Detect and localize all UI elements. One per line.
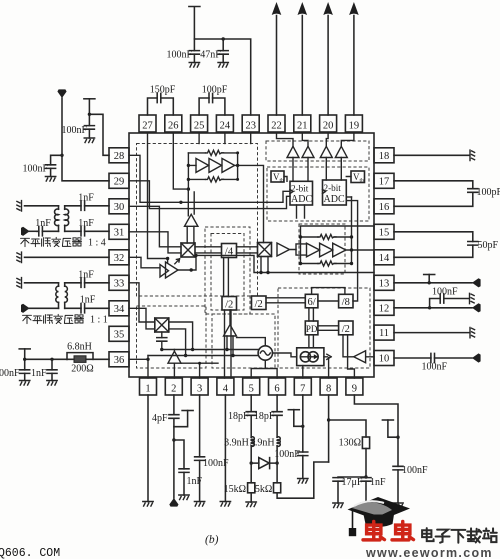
svg-text:100nF: 100nF [166,50,192,61]
ADC2 2-bit ADC [323,180,347,205]
antenna input pin 22 [272,2,282,115]
PD to /2D lines [318,326,339,331]
bracket above 6/ and /8 [312,288,345,295]
capacitor 100pF between pins 25-24 [199,85,228,116]
pin 20 [320,115,337,132]
supply tick on pin 9 net [382,420,398,437]
oscillator top wire to VCO [237,338,266,346]
svg-text:100nF: 100nF [274,449,300,460]
svg-text:100nF: 100nF [61,125,87,136]
svg-text:21: 21 [297,121,308,132]
pin 21 [294,115,311,132]
svg-text:100nF: 100nF [0,368,20,379]
resistor 200Ω [67,356,109,375]
svg-text:34: 34 [114,304,125,315]
capacitor 100nF (supply decoupling) [166,39,199,67]
unbalance transformer T2 1:1 [56,283,68,309]
svg-text:5: 5 [249,384,254,395]
pin 16 [374,199,394,214]
svg-text:100nF: 100nF [422,361,448,372]
ADC1 2-bit ADC [290,181,313,205]
svg-text:29: 29 [114,176,125,187]
pin 26 [165,115,182,132]
VCO buffer base wires to buses [227,336,233,356]
svg-text:9: 9 [352,384,357,395]
svg-text:th: th [360,178,365,184]
dashed block: ADC section [267,167,369,221]
pin 4 [217,378,234,395]
dashed block: PLL section [278,288,370,368]
crystal amp triangle [168,350,181,364]
mixer M2 bottom stubs [261,257,268,273]
pin 28 [109,148,129,163]
pin 11 to ground [394,327,475,337]
ground to pin 32 [17,252,109,262]
capacitor 100nF (pin 7) [274,395,308,483]
dashed block: divider column inner [211,234,244,311]
svg-text:7: 7 [300,384,305,395]
resistor 5kΩ (pin 6) [255,462,329,498]
capacitor 150pF between pins 27-26 [148,85,176,116]
svg-text:18pF: 18pF [228,411,249,422]
svg-text:th: th [280,178,285,184]
pin 8 net with 130Ω branch [327,395,366,462]
svg-text:150pF: 150pF [150,85,176,96]
svg-text:1nF: 1nF [78,218,94,229]
capacitor 100nF (pin36 net) [0,368,30,385]
svg-text:16: 16 [379,202,390,213]
wire pin1 up [147,356,149,379]
capacitor 100nF (pin 3) [194,395,229,506]
svg-text:ADC: ADC [324,194,345,205]
svg-text:8: 8 [326,384,331,395]
amplifier chain A1 (3 stages) [196,158,235,172]
limiter comparators x4 [287,146,347,157]
pin 34 [109,301,129,316]
svg-text:18: 18 [379,151,390,162]
svg-text:1nF: 1nF [370,477,386,488]
capacitor 1nF (pin 2 net) [172,438,202,499]
divider /8 box [339,294,353,308]
svg-text:/2: /2 [225,299,233,310]
svg-text:100nF: 100nF [402,465,428,476]
/2B to 6/ lines [266,298,305,303]
pin 5 [243,378,260,395]
pin 25 [191,115,208,132]
AGC variable amplifier [160,259,180,278]
capacitor 1nF to pin 30 [65,193,109,211]
svg-text:100pF: 100pF [477,187,500,198]
svg-text:4: 4 [223,384,229,395]
svg-text:10: 10 [379,354,390,365]
pin 12 [374,300,394,315]
capacitor 18pF (pin 5) [228,395,256,437]
pin 14 [374,250,394,265]
crystal amp base line to pin 3 [174,363,218,378]
resistor 130Ω [339,437,370,477]
LO lines mixer M1 to /4 [195,247,222,253]
label transformer T2 [23,314,84,323]
reference mixer M3 [155,318,169,332]
capacitor 1nF (pin36 net) [31,359,57,385]
divider /2 A [222,297,237,311]
wire pin27 down to AGC [148,133,168,263]
pin 8 [320,378,337,395]
capacitor 17μF [333,475,368,507]
pin 17 [374,173,394,188]
dashed block: VCO section [212,314,275,368]
pin 13 to output terminal [394,275,481,288]
pin 12 net: 100nF to ground + terminal [394,287,481,313]
charge pump output open arrow [324,354,331,359]
wire pin23 stub [250,133,252,144]
supply rail to pin 23 [189,7,251,116]
M3 output wires [169,322,193,356]
svg-text:1nF: 1nF [80,295,96,306]
wire pin26 to first IF amp input [173,133,188,189]
svg-text:ADC: ADC [291,194,312,205]
ground (transformer T2 primary) [17,278,59,288]
svg-text:3: 3 [197,384,202,395]
svg-text:23: 23 [245,121,256,132]
Vth reference box 1 [271,171,284,184]
pin 13 [374,275,394,290]
pin 27 [139,115,156,132]
svg-text:2: 2 [171,384,176,395]
svg-text:28: 28 [114,151,125,162]
capacitor 1nF to pin 33 [65,270,109,288]
svg-text:1nF: 1nF [31,368,47,379]
feedback resistor (top) [188,150,237,155]
capacitor 1nF series (terminal to T1) [35,218,58,236]
input terminal (IF in) to pin 29 [57,89,109,180]
wire pin24 stub [224,133,226,144]
oscillator symbol [258,346,272,360]
capacitor 1nF to pin 34 [65,295,109,313]
svg-text:1nF: 1nF [35,218,51,229]
svg-text:/2: /2 [342,324,350,335]
pin 18 [374,148,394,163]
svg-text:27: 27 [142,121,153,132]
oscillator to tank pins 5,6 [251,360,277,378]
IC outline [129,133,374,377]
svg-text:11: 11 [379,328,389,339]
dashed block: limiter comparators [266,141,369,161]
amplifier chain A3 (3 stages) [307,243,346,257]
supply tick pin 28 [84,99,109,156]
divider /2 B [252,296,267,310]
svg-text:50pF: 50pF [478,240,499,251]
pin 31 [109,224,129,239]
svg-text:22: 22 [271,121,282,132]
charge pump [297,348,324,366]
svg-text:/2: /2 [255,299,263,310]
pin 3 [191,378,208,395]
mixer M2 [258,243,272,257]
ground (transformer T1 primary) [17,201,59,211]
antenna input pin 19 [349,2,359,115]
input terminal (RF in) T1 [21,227,37,236]
svg-text:www.eeworm.com: www.eeworm.com [365,546,493,559]
capacitor 47nF (supply decoupling) [200,39,228,67]
pin 11 [374,325,394,340]
capacitor 100nF on pin29 net [22,155,62,181]
wire pin31 to mixer M1 [129,232,181,253]
Vth connection wires [284,177,351,182]
A3 rails and taps to pins 15,14 [301,197,375,264]
svg-text:1: 1 [145,384,150,395]
svg-text:/8: /8 [342,297,350,308]
label transformer T1 [21,237,82,246]
VCO buffer triangle [224,310,237,336]
divider 6/ box [305,294,318,308]
AGC output wire to M2 lower path [178,255,374,272]
dashed block: ref mixer section [137,306,207,368]
svg-text:130Ω: 130Ω [339,437,361,448]
svg-text:47nF: 47nF [200,50,221,61]
svg-text:Q606. COM: Q606. COM [0,547,60,559]
PD to charge pump pair [309,335,314,348]
svg-text:35: 35 [114,329,125,340]
pin 22 [268,115,285,132]
pin 9 [346,378,363,395]
resistor 15kΩ (pin 5) [224,463,257,507]
capacitor 100nF (pin 28 decoupling) [61,125,94,143]
unbalance transformer T1 1:4 [55,206,69,232]
input terminal T2 [21,304,59,313]
pin 23 [242,115,259,132]
pin 7 [294,378,311,395]
pin 15 [374,224,394,239]
svg-text:1 : 1: 1 : 1 [90,315,108,326]
svg-text:6: 6 [274,384,279,395]
capacitor 100nF series (pin 10) to terminal [394,353,481,372]
6/ to /8 line [318,300,339,302]
wire pin33 to M3 [129,283,155,322]
wire pin28 to ADC1 input [129,155,290,202]
red 虫虫 characters [363,522,413,540]
pin 18 to ground [394,150,475,160]
svg-text:12: 12 [379,303,390,314]
feedback resistor (top) A3 [301,234,352,239]
/2A down to pin 4 [225,310,232,378]
pin 36 [109,352,129,367]
pin 35 [109,326,129,341]
pin 32 [109,250,129,265]
svg-text:6.8nH: 6.8nH [67,342,92,353]
pin 4 to ground [220,395,230,506]
svg-text:19: 19 [349,121,360,132]
amp A1 vertical rails [188,153,263,243]
inductor 3.9nH (pin 6) [250,437,280,463]
wire pin25 stub [198,133,200,144]
pin 19 [345,115,362,132]
svg-text:33: 33 [114,278,125,289]
black 电子下载站 characters [422,528,497,543]
svg-text:6/: 6/ [308,297,316,308]
svg-text:20: 20 [323,121,334,132]
svg-text:1 : 4: 1 : 4 [88,238,106,249]
capacitor 1nF to pin 31 [65,218,109,236]
pin 1 [140,378,157,395]
buffer amp B1 (mixer M1 to chain A1), double lines [187,189,194,243]
inductor 6.8nH parallel [67,342,93,360]
antenna input pin 21 [298,2,308,115]
svg-text:200Ω: 200Ω [71,364,93,375]
6/ to PD pair [309,308,314,321]
pin 8 interior stub [328,358,330,379]
dashed block: divider column outer [205,227,250,314]
svg-text:4pF: 4pF [152,413,168,424]
svg-text:26: 26 [168,121,179,132]
/2D to pin 9 [348,335,355,378]
wire pin29 to ADC1 input [129,181,290,209]
LO lines /4 to mixer M2 [237,247,258,253]
pin 2 [165,378,182,395]
wire pin32 to AGC input [129,257,160,268]
svg-text:25: 25 [194,121,205,132]
Vth reference box 2 [351,171,365,184]
svg-text:13: 13 [379,278,390,289]
svg-text:18pF: 18pF [254,411,275,422]
svg-text:30: 30 [114,202,125,213]
svg-text:14: 14 [379,253,390,264]
svg-text:PD: PD [306,324,318,334]
svg-text:15: 15 [379,227,390,238]
amp A2 single stage [277,243,296,256]
pin 24 [216,115,233,132]
svg-text:1nF: 1nF [78,270,94,281]
svg-text:24: 24 [220,121,231,132]
wire pin36 into chip [129,358,148,360]
pin 1 to ground [143,395,153,506]
/4 to /2A vertical pair [224,258,229,297]
capacitor 4pF (pin 2) [152,395,179,498]
capacitor 18pF (pin 6) [254,395,282,437]
svg-text:15kΩ: 15kΩ [224,484,246,495]
capacitor 100nF (pin 9) [393,465,428,508]
capacitor 1nF [361,477,386,508]
svg-text:17: 17 [379,176,390,187]
svg-text:100pF: 100pF [202,85,228,96]
pin 29 [109,173,129,188]
output terminal pin 2 [169,498,178,507]
supply tick pin 36 net [19,349,67,370]
varactor diode D1 between pins 5-6 [250,458,279,469]
svg-text:2-bit: 2-bit [291,184,309,194]
pin 33 [109,275,129,290]
pin 10 [374,351,394,366]
svg-text:31: 31 [114,227,125,238]
svg-text:32: 32 [114,253,125,264]
M3 lower port capacitor [161,332,163,338]
pin 30 [109,199,129,214]
svg-text:3.9nH: 3.9nH [250,438,275,449]
charge pump to pin 7 [302,366,304,378]
antenna input pin 20 [323,2,333,115]
svg-text:3.9nH: 3.9nH [224,438,249,449]
output buffer triangle (pin 10 input) [354,351,374,363]
ADC1 output stubs [297,205,305,218]
svg-text:(b): (b) [205,534,219,546]
buses to oscillator [148,350,259,356]
svg-text:5kΩ: 5kΩ [255,484,272,495]
graduation cap icon [348,497,411,536]
wires pins 22,21,20,19 to comparators [277,133,294,146]
mixer M1 [181,243,195,257]
supply tick on pin 7 net [288,410,304,428]
oscillator output to PD reference [273,353,297,357]
feedback resistor (bottom) [188,177,237,182]
ADC2 output bus down right to /8 [346,201,357,301]
capacitor 100pF across pins 17-16 [394,181,500,207]
svg-text:17μF: 17μF [342,477,363,488]
pin 6 [269,378,286,395]
phase detector PD [305,321,318,335]
feedback resistor (bottom) A3 [301,261,352,266]
dashed block: second IF amp [299,224,345,274]
comparator outputs to ADCs [293,158,341,182]
dashed block: RF/IF analog section [137,144,258,297]
wire pin30 to mixer M1 [129,206,181,247]
pin 9 net [354,395,399,466]
svg-text:1nF: 1nF [78,193,94,204]
wire pin34 to M3 [129,308,155,329]
capacitor 50pF across pins 15-14 [394,232,499,257]
svg-text:36: 36 [114,355,125,366]
svg-text:100nF: 100nF [22,164,48,175]
svg-text:100nF: 100nF [432,287,458,298]
fork into chain A3 [296,244,307,255]
inductor 3.9nH (pin 5) [224,437,254,463]
divider /2 D [339,321,353,335]
divider /4 box [222,244,237,258]
/2D to output buffer [343,335,354,357]
supply tick on pin2 net [174,411,193,427]
